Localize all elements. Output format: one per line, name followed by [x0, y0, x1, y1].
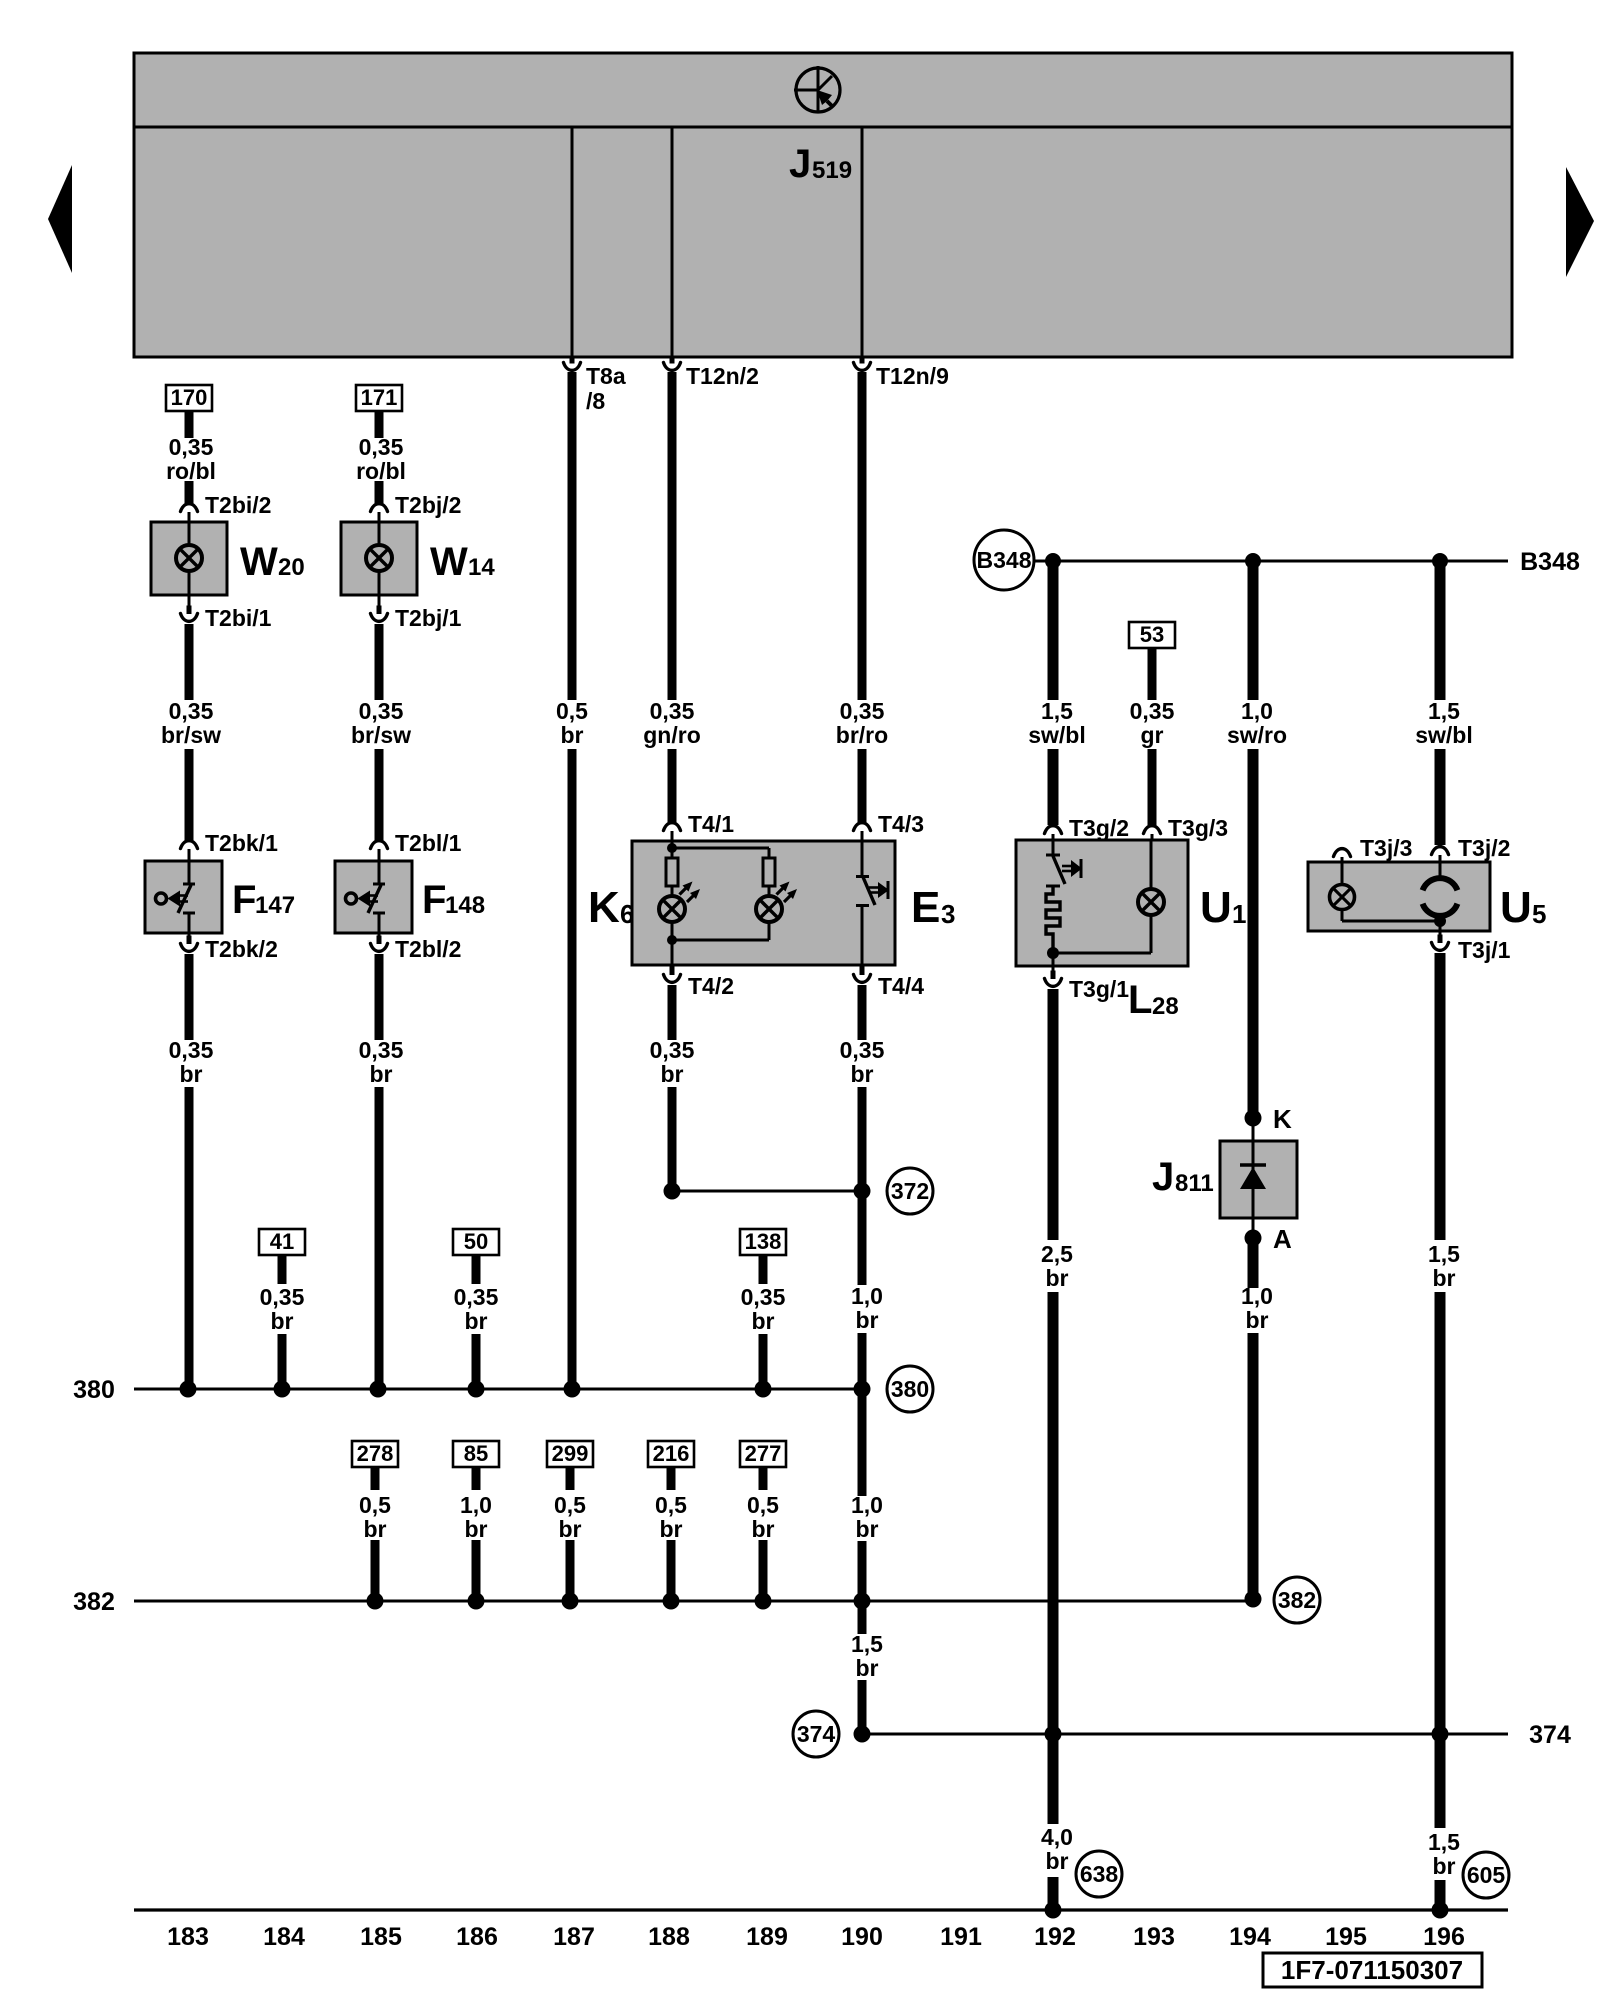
pin T3g/1 [1052, 953, 1055, 972]
svg-text:170: 170 [171, 385, 208, 410]
wire 41 to ground 380 [278, 1334, 287, 1389]
svg-text:1,5: 1,5 [1041, 698, 1073, 724]
right page-continuation arrow [1566, 167, 1594, 277]
svg-text:0,35: 0,35 [1130, 698, 1175, 724]
wire [668, 749, 677, 822]
svg-text:J: J [1152, 1155, 1174, 1199]
wire to 382 [1248, 1333, 1259, 1598]
K6 lamp 2 [756, 896, 782, 922]
svg-text:ro/bl: ro/bl [356, 458, 406, 484]
svg-text:185: 185 [360, 1923, 402, 1951]
svg-text:T8a: T8a [586, 363, 626, 389]
svg-text:K: K [588, 883, 620, 932]
svg-text:0,35: 0,35 [359, 698, 404, 724]
svg-text:277: 277 [745, 1441, 782, 1466]
terminal box 50 [453, 1229, 499, 1255]
svg-text:T3g/2: T3g/2 [1069, 815, 1129, 841]
K6 internal link wire [672, 847, 769, 850]
pin T3g/2 [1045, 826, 1062, 834]
node on 372 link [664, 1183, 681, 1200]
svg-text:br: br [465, 1516, 488, 1542]
wire [185, 749, 194, 840]
svg-text:sw/bl: sw/bl [1415, 722, 1473, 748]
wire [375, 481, 384, 503]
lamp symbol W20 [176, 545, 202, 571]
svg-text:T2bl/1: T2bl/1 [395, 830, 462, 856]
wire 216 down [667, 1467, 676, 1490]
svg-text:br: br [1433, 1853, 1456, 1879]
svg-text:194: 194 [1229, 1923, 1271, 1951]
node on 380 [755, 1381, 772, 1398]
U1 internal link wire [1053, 952, 1151, 955]
svg-text:0,35: 0,35 [359, 434, 404, 460]
svg-text:299: 299 [552, 1441, 589, 1466]
J519 internal wire to pin T12n/9 [861, 127, 864, 357]
node on 382 [854, 1593, 871, 1610]
svg-text:/8: /8 [586, 388, 605, 414]
svg-text:0,35: 0,35 [169, 698, 214, 724]
wire T4/2 down [668, 985, 677, 1040]
wire T4/4 down [858, 985, 867, 1040]
J519 internal divider line [134, 126, 1512, 129]
wire to ground 380 [568, 749, 577, 1389]
svg-text:147: 147 [255, 892, 295, 919]
svg-text:br: br [370, 1061, 393, 1087]
svg-text:T2bj/2: T2bj/2 [395, 492, 461, 518]
node on B348 line [1432, 553, 1448, 569]
pin T2bk/1 [181, 841, 198, 849]
ground bus line 374 [862, 1733, 1508, 1736]
svg-text:0,35: 0,35 [454, 1284, 499, 1310]
J519 internal wire to pin T12n/2 [671, 127, 674, 357]
svg-text:br: br [364, 1516, 387, 1542]
svg-text:F: F [232, 878, 256, 922]
svg-text:216: 216 [653, 1441, 690, 1466]
svg-text:B348: B348 [1520, 548, 1580, 576]
plus connection circle B348 [974, 530, 1034, 590]
svg-text:1,0: 1,0 [460, 1492, 492, 1518]
terminal box 138 [740, 1229, 786, 1255]
wire to bottom [1048, 1877, 1059, 1910]
pin T2bj/1 [378, 595, 381, 608]
node on 380 [468, 1381, 485, 1398]
svg-text:br: br [1046, 1265, 1069, 1291]
K6 lamp 1 [659, 896, 685, 922]
svg-text:382: 382 [73, 1588, 115, 1616]
switch F148 box [335, 861, 412, 933]
wire T8a/8 down [568, 372, 577, 700]
left page-continuation arrow [48, 165, 72, 273]
svg-text:br: br [661, 1061, 684, 1087]
wire [1048, 749, 1059, 825]
svg-text:br/sw: br/sw [351, 722, 411, 748]
ground node circle 380 [887, 1366, 933, 1412]
svg-text:T2bl/2: T2bl/2 [395, 936, 461, 962]
wire [1435, 749, 1446, 845]
U5 internal node [1434, 915, 1446, 927]
node on 382 [663, 1593, 680, 1610]
svg-text:sw/bl: sw/bl [1028, 722, 1086, 748]
svg-text:U: U [1200, 883, 1232, 932]
svg-text:T4/2: T4/2 [688, 973, 734, 999]
K6 lamp 2 rays [777, 885, 787, 895]
J519 dimmer symbol circle [794, 66, 840, 112]
pin T2bl/2 [378, 933, 381, 938]
bottom frame line [134, 1908, 1508, 1911]
pin T3j/2 [1432, 847, 1449, 855]
svg-text:br: br [271, 1308, 294, 1334]
wire below 382 [858, 1601, 867, 1634]
svg-text:0,35: 0,35 [650, 1037, 695, 1063]
light unit U1 box [1016, 840, 1188, 966]
U1 switch symbol [1046, 840, 1082, 886]
pin T2bk/2 [188, 933, 191, 938]
svg-text:br/sw: br/sw [161, 722, 221, 748]
svg-text:0,5: 0,5 [359, 1492, 391, 1518]
wire to ground 380 [375, 1087, 384, 1389]
wire 171 to T2bj/2 [375, 410, 384, 438]
svg-text:380: 380 [73, 1376, 115, 1404]
svg-text:sw/ro: sw/ro [1227, 722, 1287, 748]
svg-text:195: 195 [1325, 1923, 1367, 1951]
svg-text:br: br [180, 1061, 203, 1087]
node on 374 [1432, 1726, 1449, 1743]
pin T4/3 [854, 823, 871, 831]
svg-text:0,35: 0,35 [741, 1284, 786, 1310]
svg-text:br: br [856, 1307, 879, 1333]
wire B348 down [1048, 561, 1059, 700]
svg-text:T3g/3: T3g/3 [1168, 815, 1228, 841]
svg-text:192: 192 [1034, 1923, 1076, 1951]
terminal box 171 [356, 385, 402, 411]
K6 lamp 1 rays [680, 885, 690, 895]
connection circle 372 [887, 1168, 933, 1214]
terminal box 299 [547, 1441, 593, 1467]
svg-text:br/ro: br/ro [836, 722, 888, 748]
wire T2bj/1 down [375, 624, 384, 700]
wire T12n/2 down [668, 372, 677, 700]
wire [185, 481, 194, 503]
svg-text:53: 53 [1140, 622, 1164, 647]
svg-text:T2bi/1: T2bi/1 [205, 605, 272, 631]
svg-text:196: 196 [1423, 1923, 1465, 1951]
svg-text:1,0: 1,0 [851, 1492, 883, 1518]
U1 resistor zigzag [1046, 886, 1060, 948]
svg-text:1,0: 1,0 [1241, 1283, 1273, 1309]
svg-text:20: 20 [278, 554, 305, 581]
svg-text:br: br [851, 1061, 874, 1087]
svg-text:188: 188 [648, 1923, 690, 1951]
svg-text:187: 187 [553, 1923, 595, 1951]
wire to 374 [1048, 1292, 1059, 1734]
switch symbol F148 [346, 861, 386, 933]
wire 85 to ground 382 [472, 1540, 481, 1601]
ground node circle 374 [793, 1711, 839, 1757]
node on 374 [1045, 1726, 1062, 1743]
circle 638 [1076, 1851, 1122, 1897]
svg-text:E: E [911, 883, 940, 932]
svg-text:148: 148 [445, 892, 485, 919]
wire T2bk/2 down [185, 954, 194, 1040]
wire 138 to ground 380 [759, 1334, 768, 1389]
svg-text:T2bk/1: T2bk/1 [205, 830, 278, 856]
svg-text:br: br [559, 1516, 582, 1542]
U5 lamp [1341, 862, 1344, 884]
node on 382 [1245, 1591, 1262, 1608]
svg-text:T12n/2: T12n/2 [686, 363, 759, 389]
control unit J519 box [134, 53, 1512, 357]
pin T3j/3 [1334, 849, 1351, 857]
wire A down [1248, 1242, 1259, 1288]
wire below 380 [858, 1389, 867, 1496]
node on 380 [854, 1381, 871, 1398]
wire 53 down [1148, 648, 1157, 700]
wire 50 down [472, 1255, 481, 1284]
switch symbol F147 [156, 861, 196, 933]
wire [858, 749, 867, 822]
node on 374 [854, 1726, 871, 1743]
svg-text:2,5: 2,5 [1041, 1241, 1073, 1267]
pin T12n/9 of J519 [860, 357, 865, 364]
wire 50 to ground 380 [472, 1334, 481, 1389]
svg-text:189: 189 [746, 1923, 788, 1951]
pin T3g/3 [1144, 826, 1161, 834]
node on 382 [755, 1593, 772, 1610]
svg-text:1,5: 1,5 [1428, 1241, 1460, 1267]
pin T4/4 [861, 965, 864, 969]
lighter unit U5 box [1308, 862, 1490, 931]
svg-text:br: br [1246, 1307, 1269, 1333]
node on 382 [468, 1593, 485, 1610]
wire 299 down [566, 1467, 575, 1490]
svg-text:278: 278 [357, 1441, 394, 1466]
U1 lamp [1138, 889, 1164, 915]
svg-text:gr: gr [1141, 722, 1164, 748]
terminal box 170 [166, 385, 212, 411]
K6 resistor 1 [671, 848, 674, 858]
wire T12n/9 down [858, 372, 867, 700]
wire 170 to T2bi/2 [185, 410, 194, 438]
svg-text:0,5: 0,5 [556, 698, 588, 724]
pin T2bi/2 [181, 504, 198, 512]
wire [1148, 749, 1157, 825]
bulb W20 box [151, 522, 227, 595]
terminal box 53 [1129, 622, 1175, 648]
svg-text:171: 171 [361, 385, 398, 410]
pin T3j/1 [1439, 921, 1442, 937]
pin T4/1 [664, 823, 681, 831]
svg-text:6: 6 [620, 899, 634, 929]
svg-text:1,0: 1,0 [851, 1283, 883, 1309]
K6 resistor 2 [763, 858, 775, 886]
wire 138 down [759, 1255, 768, 1284]
pin T8a/8 of J519 [570, 357, 575, 364]
svg-text:1F7-071150307: 1F7-071150307 [1281, 1955, 1463, 1985]
svg-text:br: br [660, 1516, 683, 1542]
node on 382 [562, 1593, 579, 1610]
node on 380 [370, 1381, 387, 1398]
terminal box 216 [648, 1441, 694, 1467]
node on 380 [180, 1381, 197, 1398]
svg-text:374: 374 [797, 1721, 836, 1747]
svg-text:186: 186 [456, 1923, 498, 1951]
svg-text:1: 1 [1232, 899, 1246, 929]
circle 605 [1463, 1852, 1509, 1898]
wire 41 down [278, 1255, 287, 1284]
svg-text:0,5: 0,5 [554, 1492, 586, 1518]
wire below 374 [1048, 1734, 1059, 1824]
wire to diode K [1248, 749, 1259, 1112]
ground bus line 380 [134, 1388, 866, 1391]
svg-text:190: 190 [841, 1923, 883, 1951]
wire to 380 [858, 1333, 867, 1389]
svg-text:br: br [1046, 1848, 1069, 1874]
wire 278 to ground 382 [371, 1540, 380, 1601]
svg-text:br: br [465, 1308, 488, 1334]
svg-text:1,5: 1,5 [851, 1631, 883, 1657]
pin T2bj/2 [371, 504, 388, 512]
svg-text:4,0: 4,0 [1041, 1824, 1073, 1850]
wire 299 to ground 382 [566, 1540, 575, 1601]
svg-text:br: br [752, 1308, 775, 1334]
svg-text:372: 372 [891, 1178, 929, 1204]
svg-text:519: 519 [812, 157, 852, 184]
node on 372 link [854, 1183, 871, 1200]
wire to ground 380 [185, 1087, 194, 1389]
svg-text:T2bj/1: T2bj/1 [395, 605, 462, 631]
node on B348 line [1045, 553, 1061, 569]
svg-text:191: 191 [940, 1923, 982, 1951]
wire to node 372 [858, 1087, 867, 1285]
svg-text:0,35: 0,35 [840, 698, 885, 724]
diode symbol [1252, 1141, 1255, 1218]
svg-text:1,5: 1,5 [1428, 1829, 1460, 1855]
svg-text:1,0: 1,0 [1241, 698, 1273, 724]
lamp symbol W14 [366, 545, 392, 571]
terminal box 278 [352, 1441, 398, 1467]
svg-text:50: 50 [464, 1229, 488, 1254]
svg-text:br: br [856, 1516, 879, 1542]
wire T2bi/1 down [185, 624, 194, 700]
connector link wire 372 [672, 1190, 862, 1193]
wire 278 down [371, 1467, 380, 1490]
node on 380 [274, 1381, 291, 1398]
svg-text:0,35: 0,35 [650, 698, 695, 724]
svg-text:T4/1: T4/1 [688, 811, 734, 837]
terminal box 85 [453, 1441, 499, 1467]
svg-text:T4/3: T4/3 [878, 811, 924, 837]
pin T2bl/1 [371, 841, 388, 849]
lamp unit K6 / E3 box [632, 841, 895, 965]
svg-text:br: br [856, 1655, 879, 1681]
svg-text:A: A [1273, 1224, 1292, 1254]
node on 380 [564, 1381, 581, 1398]
svg-text:U: U [1500, 883, 1532, 932]
svg-text:ro/bl: ro/bl [166, 458, 216, 484]
svg-text:T12n/9: T12n/9 [876, 363, 949, 389]
svg-text:br: br [561, 722, 584, 748]
svg-text:183: 183 [167, 1923, 209, 1951]
svg-text:W: W [240, 540, 278, 584]
node bottom [1045, 1902, 1062, 1919]
svg-text:1,5: 1,5 [1428, 698, 1460, 724]
svg-text:br: br [752, 1516, 775, 1542]
svg-text:3: 3 [941, 899, 955, 929]
svg-text:138: 138 [745, 1229, 782, 1254]
svg-text:T2bi/2: T2bi/2 [205, 492, 271, 518]
pin T4/2 [671, 965, 674, 969]
svg-text:W: W [430, 540, 468, 584]
wire 277 down [759, 1467, 768, 1490]
U1 internal node [1052, 948, 1055, 953]
J519 internal wire to pin T8a/8 [571, 127, 574, 357]
wire [375, 749, 384, 840]
svg-text:F: F [422, 878, 446, 922]
terminal box 41 [259, 1229, 305, 1255]
terminal box 277 [740, 1441, 786, 1467]
svg-text:28: 28 [1152, 993, 1179, 1020]
svg-text:85: 85 [464, 1441, 488, 1466]
svg-text:T2bk/2: T2bk/2 [205, 936, 278, 962]
wire B348 down [1435, 561, 1446, 700]
pin T2bi/1 [188, 595, 191, 608]
node bottom [1432, 1902, 1449, 1919]
diode J811 box [1220, 1141, 1297, 1218]
wire T2bl/2 down [375, 954, 384, 1040]
svg-text:638: 638 [1080, 1861, 1119, 1887]
svg-text:T3j/3: T3j/3 [1360, 835, 1412, 861]
svg-text:5: 5 [1532, 899, 1546, 929]
U5 heater element arcs [1439, 862, 1442, 878]
svg-text:T3j/1: T3j/1 [1458, 937, 1511, 963]
svg-text:605: 605 [1467, 1862, 1506, 1888]
node on B348 line [1245, 553, 1261, 569]
svg-text:811: 811 [1175, 1170, 1214, 1197]
svg-text:0,35: 0,35 [260, 1284, 305, 1310]
K6 internal bottom node [671, 922, 674, 940]
node A [1252, 1218, 1255, 1238]
svg-text:br: br [1433, 1265, 1456, 1291]
wire to bottom [1435, 1880, 1446, 1910]
svg-text:380: 380 [891, 1376, 929, 1402]
svg-text:193: 193 [1133, 1923, 1175, 1951]
svg-text:0,35: 0,35 [840, 1037, 885, 1063]
svg-text:J: J [789, 142, 811, 186]
svg-text:T3g/1: T3g/1 [1069, 976, 1129, 1002]
svg-text:B348: B348 [977, 547, 1032, 573]
svg-text:gn/ro: gn/ro [643, 722, 701, 748]
ground node circle 382 [1274, 1577, 1320, 1623]
ground bus line 382 [134, 1600, 1252, 1603]
wire T3g/1 down [1048, 989, 1059, 1240]
svg-text:0,35: 0,35 [359, 1037, 404, 1063]
switch F147 box [145, 861, 222, 933]
wire to 374 [858, 1680, 867, 1734]
svg-text:T3j/2: T3j/2 [1458, 835, 1510, 861]
wire to node 372 [668, 1087, 677, 1191]
bulb W14 box [341, 522, 417, 595]
E3 switch symbol [856, 841, 889, 965]
diagram number box 1F7-071150307 [1263, 1953, 1482, 1987]
svg-text:374: 374 [1529, 1721, 1571, 1749]
node K [1245, 1110, 1262, 1127]
wire into J811 [1252, 1118, 1255, 1141]
wire to 382 [858, 1541, 867, 1601]
wire T3j/1 down [1435, 953, 1446, 1240]
svg-text:K: K [1273, 1104, 1292, 1134]
wire 216 to ground 382 [667, 1540, 676, 1601]
svg-text:41: 41 [270, 1229, 294, 1254]
